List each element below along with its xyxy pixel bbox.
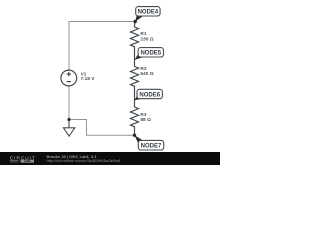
svg-text:LAB: LAB xyxy=(24,159,31,163)
svg-text:230 Ω: 230 Ω xyxy=(140,36,153,42)
svg-text:R2: R2 xyxy=(140,66,146,72)
svg-text:88 Ω: 88 Ω xyxy=(140,117,151,123)
svg-text:NODE4: NODE4 xyxy=(138,10,159,16)
svg-text:NODE5: NODE5 xyxy=(140,51,161,57)
svg-text:NODE7: NODE7 xyxy=(141,144,162,150)
svg-text:NODE6: NODE6 xyxy=(139,92,160,98)
svg-text:7.18 V: 7.18 V xyxy=(81,76,96,82)
svg-text:R3: R3 xyxy=(140,112,146,118)
svg-text:http://circuitlab.com/c/5z362b: http://circuitlab.com/c/5z362b65a2e5x8 xyxy=(47,159,121,163)
svg-text:540 Ω: 540 Ω xyxy=(140,71,153,77)
svg-text:R1: R1 xyxy=(140,31,146,37)
